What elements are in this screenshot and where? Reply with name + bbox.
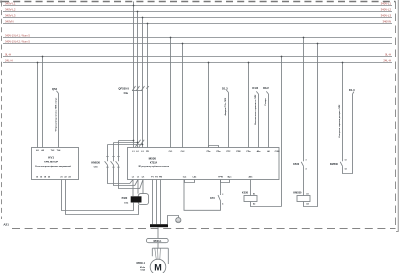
svg-text:C9в: C9в xyxy=(124,202,129,204)
svg-text:A0: A0 xyxy=(267,150,270,153)
svg-text:13: 13 xyxy=(345,159,347,161)
wire KV1 out 22 xyxy=(66,180,139,215)
svg-text:Реле контроля фазных напряжени: Реле контроля фазных напряжений xyxy=(35,165,71,168)
svg-text:A2: A2 xyxy=(41,149,45,152)
svg-text:K73: K73 xyxy=(210,197,215,200)
jumper 1uв-L4в xyxy=(185,180,195,183)
svg-text:v1: v1 xyxy=(137,177,140,179)
wire contact to KM530 coil xyxy=(303,167,305,196)
VFD top pin labels xyxy=(132,150,279,153)
svg-text:4: 4 xyxy=(306,168,307,171)
svg-text:A0C: A0C xyxy=(248,176,253,179)
svg-text:KM530: KM530 xyxy=(330,163,339,166)
svg-text:PDE: PDE xyxy=(236,151,241,153)
svg-text:D1.3: D1.3 xyxy=(349,88,355,92)
aux contact KM530 xyxy=(330,159,347,170)
svg-text:M: M xyxy=(154,263,162,273)
relay coil K530 xyxy=(242,191,257,205)
wire PDн from 24L-H xyxy=(248,63,250,148)
svg-text:C9н: C9н xyxy=(94,166,99,168)
wire COM return to 0L-H xyxy=(281,57,283,207)
svg-text:P1: P1 xyxy=(151,177,154,179)
enclosure A21 dashed border right xyxy=(395,2,397,229)
svg-text:KM530: KM530 xyxy=(91,160,100,164)
relay KV1 block xyxy=(32,148,79,180)
bus 340V-1XL4.1 xyxy=(3,33,392,37)
svg-text:4: 4 xyxy=(222,202,223,205)
wire u1 to P330 xyxy=(132,180,134,197)
enclosure A21 dashed border left xyxy=(1,2,3,220)
svg-text:KV1: KV1 xyxy=(48,156,54,160)
svg-text:15: 15 xyxy=(36,176,39,178)
bus 24L-H xyxy=(3,58,392,62)
contactor KM530 pole 1 xyxy=(116,141,143,189)
svg-text:PDн: PDн xyxy=(246,151,251,153)
svg-text:A1: A1 xyxy=(306,192,308,195)
wire K530 coil return to 0L-H xyxy=(251,202,282,207)
svg-text:340V-L1: 340V-L1 xyxy=(5,1,16,5)
svg-text:9.5A: 9.5A xyxy=(140,269,145,272)
signal wire D13 xyxy=(222,86,228,147)
svg-text:u1: u1 xyxy=(132,177,135,179)
svg-text:TL4: TL4 xyxy=(57,149,62,152)
wire KV1 A2 from 0L-H xyxy=(42,57,44,148)
svg-text:A1: A1 xyxy=(36,149,40,152)
svg-text:22: 22 xyxy=(64,176,67,178)
svg-text:TL2: TL2 xyxy=(51,150,56,152)
svg-text:Q53: Q53 xyxy=(52,87,58,91)
wire crossover diagonals xyxy=(135,140,144,147)
svg-text:A2: A2 xyxy=(306,203,308,206)
svg-text:340V-L1: 340V-L1 xyxy=(381,1,392,5)
contactor KM530 pole 2 xyxy=(111,143,138,186)
wire PE to earth xyxy=(168,216,179,225)
svg-text:L1: L1 xyxy=(132,151,135,153)
wire from 1XL4.1 to K530 contact xyxy=(303,38,305,162)
svg-text:M530: M530 xyxy=(149,157,157,161)
svg-text:24L-H: 24L-H xyxy=(383,58,391,62)
wire to motor xyxy=(157,227,159,238)
svg-text:24: 24 xyxy=(68,175,71,178)
signal wire Q53 to KV1 xyxy=(52,87,59,148)
motor cable wire W xyxy=(160,180,162,225)
svg-text:18: 18 xyxy=(44,176,47,178)
svg-text:340V-L3: 340V-L3 xyxy=(381,13,392,17)
svg-text:KT32A: KT32A xyxy=(150,161,158,164)
motor cable wire U xyxy=(152,180,154,225)
jumper PFв-PDв xyxy=(209,146,219,148)
svg-text:Контроль тормоза резерв к ПЛК: Контроль тормоза резерв к ПЛК xyxy=(339,104,341,138)
svg-text:25: 25 xyxy=(48,176,51,178)
svg-text:A2: A2 xyxy=(253,203,255,206)
jumper TPW-Bуп xyxy=(221,180,230,183)
svg-text:24L-H: 24L-H xyxy=(5,58,13,62)
motor cable wire V xyxy=(156,180,158,225)
wire w1 to P330 xyxy=(142,180,144,194)
svg-text:ЧП регулятор зубчатого колеса: ЧП регулятор зубчатого колеса xyxy=(138,165,170,168)
svg-text:D1.3: D1.3 xyxy=(222,86,228,90)
earth terminal xyxy=(176,218,181,223)
wire 24L-H to KM530 aux contact xyxy=(342,63,344,162)
svg-text:K530: K530 xyxy=(293,163,300,166)
svg-text:K530: K530 xyxy=(242,191,249,194)
svg-text:PFC: PFC xyxy=(226,151,231,153)
motor terminal box xyxy=(152,248,168,264)
svg-text:0L-H: 0L-H xyxy=(5,52,11,56)
wire K73 return to 1uв xyxy=(184,180,221,211)
svg-text:KM530: KM530 xyxy=(293,191,302,194)
contact K530 xyxy=(293,159,306,170)
svg-text:PDв: PDв xyxy=(216,151,221,153)
svg-text:A21: A21 xyxy=(3,223,9,227)
svg-text:3: 3 xyxy=(222,194,223,196)
svg-text:TPW: TPW xyxy=(218,177,223,179)
wire L3 drop xyxy=(108,18,143,148)
bus 340V-1XL4.2 xyxy=(3,39,392,43)
wire tag to terminal box xyxy=(157,243,159,249)
signal wire D1/2 a xyxy=(252,86,258,148)
svg-text:COM: COM xyxy=(275,151,280,153)
svg-text:340V-1XL4.1 / Num 5: 340V-1XL4.1 / Num 5 xyxy=(5,33,30,37)
svg-text:3: 3 xyxy=(306,159,307,161)
wire KM530 coil return to 1XL4.2 xyxy=(304,44,318,207)
svg-text:w1: w1 xyxy=(142,177,146,179)
cable shield bar xyxy=(150,224,168,227)
cable tag W530-1 xyxy=(146,238,168,242)
wire CL1 from 1XL4.1 xyxy=(170,38,172,148)
svg-text:A0н: A0н xyxy=(257,150,262,153)
svg-text:340V-1XL4.2 / Num 5: 340V-1XL4.2 / Num 5 xyxy=(5,39,30,43)
svg-text:A1: A1 xyxy=(253,192,255,195)
svg-text:P330: P330 xyxy=(122,197,128,200)
svg-text:PE: PE xyxy=(146,151,149,153)
svg-text:L2: L2 xyxy=(136,151,139,153)
wire KV1 A1 from 24L-H xyxy=(37,63,39,148)
contactor coil KM530 xyxy=(293,191,310,205)
svg-text:CL2: CL2 xyxy=(181,151,186,153)
contactor KM530 label xyxy=(91,160,100,168)
bus 340V-L2 xyxy=(3,7,392,11)
svg-text:340V-L2: 340V-L2 xyxy=(5,7,16,11)
svg-text:Авария ПЧ к ПЛК: Авария ПЧ к ПЛК xyxy=(224,97,227,115)
wire N-PE drop xyxy=(147,24,149,148)
svg-text:Выключение тормоза от ПЛК: Выключение тормоза от ПЛК xyxy=(255,94,257,125)
svg-text:M530-1: M530-1 xyxy=(137,262,146,265)
svg-text:D1/2: D1/2 xyxy=(252,86,258,90)
svg-text:340VN: 340VN xyxy=(382,19,391,23)
enclosure A21 dashed border top xyxy=(2,1,396,3)
motor M530-1 xyxy=(137,259,166,273)
bus 340V-L3 xyxy=(3,13,392,17)
svg-text:KPM-ND762P: KPM-ND762P xyxy=(44,162,58,164)
wire TPW to K73 xyxy=(220,180,222,194)
svg-text:Bуп: Bуп xyxy=(228,177,233,179)
VFD bottom pin labels xyxy=(132,176,253,179)
wire KV1 out 21 xyxy=(62,180,134,211)
wire A0C to K530 coil xyxy=(250,180,252,196)
bus 340VN xyxy=(3,19,392,23)
sheet frame right edge xyxy=(396,0,398,232)
svg-text:PB: PB xyxy=(159,177,162,179)
svg-text:340VN: 340VN xyxy=(5,19,14,23)
wire PFв from 24L-H xyxy=(208,63,210,148)
svg-text:340V-L2: 340V-L2 xyxy=(381,7,392,11)
contactor KM530 pole 3 xyxy=(105,145,133,184)
svg-text:Резерв: Резерв xyxy=(265,98,267,106)
svg-text:C9н: C9н xyxy=(124,93,129,95)
wire L1 drop xyxy=(119,2,134,148)
svg-text:W530-1: W530-1 xyxy=(153,241,162,243)
svg-text:16: 16 xyxy=(40,176,43,178)
circuit breaker QF530-5 xyxy=(118,86,149,95)
wire L2 drop xyxy=(114,12,138,148)
svg-text:340V-L3: 340V-L3 xyxy=(5,13,16,17)
svg-text:21: 21 xyxy=(60,176,63,178)
signal wire D1/2 b xyxy=(263,86,269,148)
svg-text:CL1: CL1 xyxy=(169,151,174,153)
wire CL2 from 1XL4.2 xyxy=(182,44,184,148)
svg-text:PFв: PFв xyxy=(207,151,212,153)
svg-text:1uв: 1uв xyxy=(183,177,187,179)
svg-text:L3: L3 xyxy=(141,151,144,153)
svg-text:14: 14 xyxy=(345,168,347,171)
svg-text:L4в: L4в xyxy=(193,176,197,179)
filter P330 xyxy=(122,194,149,205)
svg-text:0L-H: 0L-H xyxy=(385,52,391,56)
VFD M530 block xyxy=(128,148,280,180)
switch K73 xyxy=(210,194,223,205)
wire v1 to P330 xyxy=(137,180,139,194)
enclosure A21 dashed border bottom xyxy=(12,228,396,230)
svg-text:QF530-5: QF530-5 xyxy=(118,86,129,90)
svg-text:D1/2: D1/2 xyxy=(263,86,269,90)
svg-text:ЧП регулятор готов к ПЛК стату: ЧП регулятор готов к ПЛК статус xyxy=(55,97,57,132)
bus 340V-L1 xyxy=(3,1,392,5)
signal wire D1.3 brake status xyxy=(339,88,355,173)
border corner mark xyxy=(0,1,2,3)
bus 0L-H xyxy=(3,52,392,56)
